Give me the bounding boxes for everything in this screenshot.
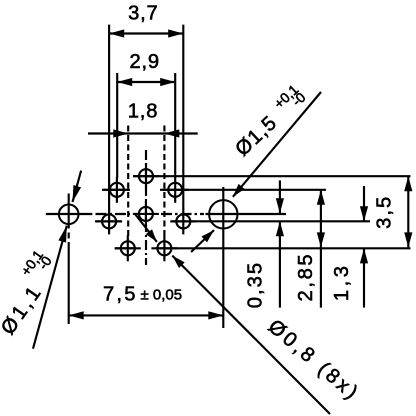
extension line 1,8 left dashed	[127, 126, 129, 241]
dimension 2,85 up arrow	[317, 190, 325, 205]
row B construction line right	[160, 189, 326, 191]
dimension 0,35 line lower	[279, 221, 281, 307]
dimension 0,35 down arrow	[276, 198, 284, 213]
svg-text:2,85: 2,85	[295, 252, 317, 302]
hole M2 (diameter 1,5) right	[209, 200, 237, 228]
svg-text:± 0,05: ± 0,05	[141, 286, 183, 303]
dimension 7,5 left arrow	[69, 311, 84, 319]
row A construction line	[133, 175, 411, 177]
main row centerline left crosshair	[46, 213, 93, 215]
main row centerline dash-dot segment 1	[96, 213, 131, 215]
row E construction line right	[156, 247, 411, 249]
row B construction line left	[102, 189, 129, 191]
svg-text:3,7: 3,7	[128, 3, 158, 25]
leader diameter 1,5 main arrow	[233, 184, 245, 197]
leader diameter 1,1 opposite segment	[73, 171, 82, 202]
dimension 1,3 up arrow	[360, 248, 368, 263]
extension line 2,9 left	[116, 73, 118, 178]
dimension 3,5 up arrow	[404, 176, 412, 191]
dimension 3,5 line	[407, 176, 409, 247]
hole E2 (diameter 0,8)	[157, 241, 171, 255]
svg-text:3,5: 3,5	[374, 195, 396, 229]
extension line 1,8 right dashed	[163, 126, 165, 241]
hole M2 vertical centerline	[222, 187, 224, 328]
main row centerline through hole M2	[206, 213, 287, 215]
main row centerline dash-dot segment 2	[161, 213, 204, 215]
dimension 1,3 line lower	[363, 248, 365, 307]
hole B2 (diameter 0,8)	[168, 183, 182, 197]
svg-text:1,3: 1,3	[331, 263, 353, 302]
leader diameter 0,8 opposite arrow	[146, 229, 157, 242]
dimension 3,7 line	[109, 32, 183, 34]
extension line 3,7 right	[182, 25, 184, 209]
hole M1 (diameter 1,1) left	[59, 205, 79, 225]
dimension 7,5 line	[69, 314, 224, 316]
leader diameter 0,8 main line	[172, 256, 330, 414]
dimension 1,8 left outside arrow	[113, 129, 128, 137]
row D construction line right	[171, 220, 370, 222]
dimension 1,8 line	[88, 132, 198, 134]
dimension 2,9 right arrow	[160, 78, 175, 86]
row D construction line left	[95, 220, 122, 222]
leader diameter 1,5 main line	[233, 92, 321, 197]
dimension 7,5 right arrow	[208, 311, 223, 319]
dimension 2,85 down arrow	[317, 232, 325, 247]
leader diameter 1,1 opposite arrow	[73, 185, 82, 202]
hole D1 (diameter 0,8)	[102, 214, 116, 228]
dimension 2,9 line	[117, 81, 175, 83]
dimension 1,3 line upper	[363, 186, 365, 221]
hole B1 (diameter 0,8)	[110, 183, 124, 197]
dimension 2,9 left arrow	[117, 78, 132, 86]
hole E1 (diameter 0,8)	[121, 241, 135, 255]
leader diameter 1,1 main arrow	[58, 226, 66, 243]
svg-text:1,8: 1,8	[128, 101, 158, 123]
dimension 1,3 down arrow	[360, 206, 368, 221]
hole D2 (diameter 0,8)	[176, 214, 190, 228]
center column centerline dash-dot	[145, 150, 147, 265]
leader diameter 1,1 main line	[33, 226, 67, 349]
svg-text:7,5: 7,5	[103, 284, 138, 306]
dimension 0,35 up arrow	[276, 221, 284, 236]
leader diameter 1,5 opposite segment	[191, 230, 214, 252]
leader diameter 0,8 opposite segment	[135, 215, 157, 242]
svg-text:0,35: 0,35	[245, 261, 267, 308]
svg-text:2,9: 2,9	[129, 51, 159, 73]
dimension 3,7 right arrow	[168, 29, 183, 37]
leader diameter 1,5 opposite arrow	[201, 230, 214, 242]
hole M1 vertical centerline	[68, 194, 70, 229]
extension line 2,9 right	[174, 73, 176, 178]
dimension 3,7 left arrow	[109, 29, 124, 37]
dimension 1,8 right outside arrow	[164, 129, 179, 137]
hole A1 (diameter 0,8) top center	[139, 169, 153, 183]
dimension 3,5 down arrow	[404, 232, 412, 247]
leader diameter 0,8 main arrow	[172, 256, 184, 268]
row E construction line left	[115, 247, 136, 249]
hole C1 (diameter 0,8) center	[139, 207, 153, 221]
dimension 2,85 line	[320, 190, 322, 308]
dimension 0,35 line upper	[279, 180, 281, 213]
extension line 3,7 left	[108, 25, 110, 209]
